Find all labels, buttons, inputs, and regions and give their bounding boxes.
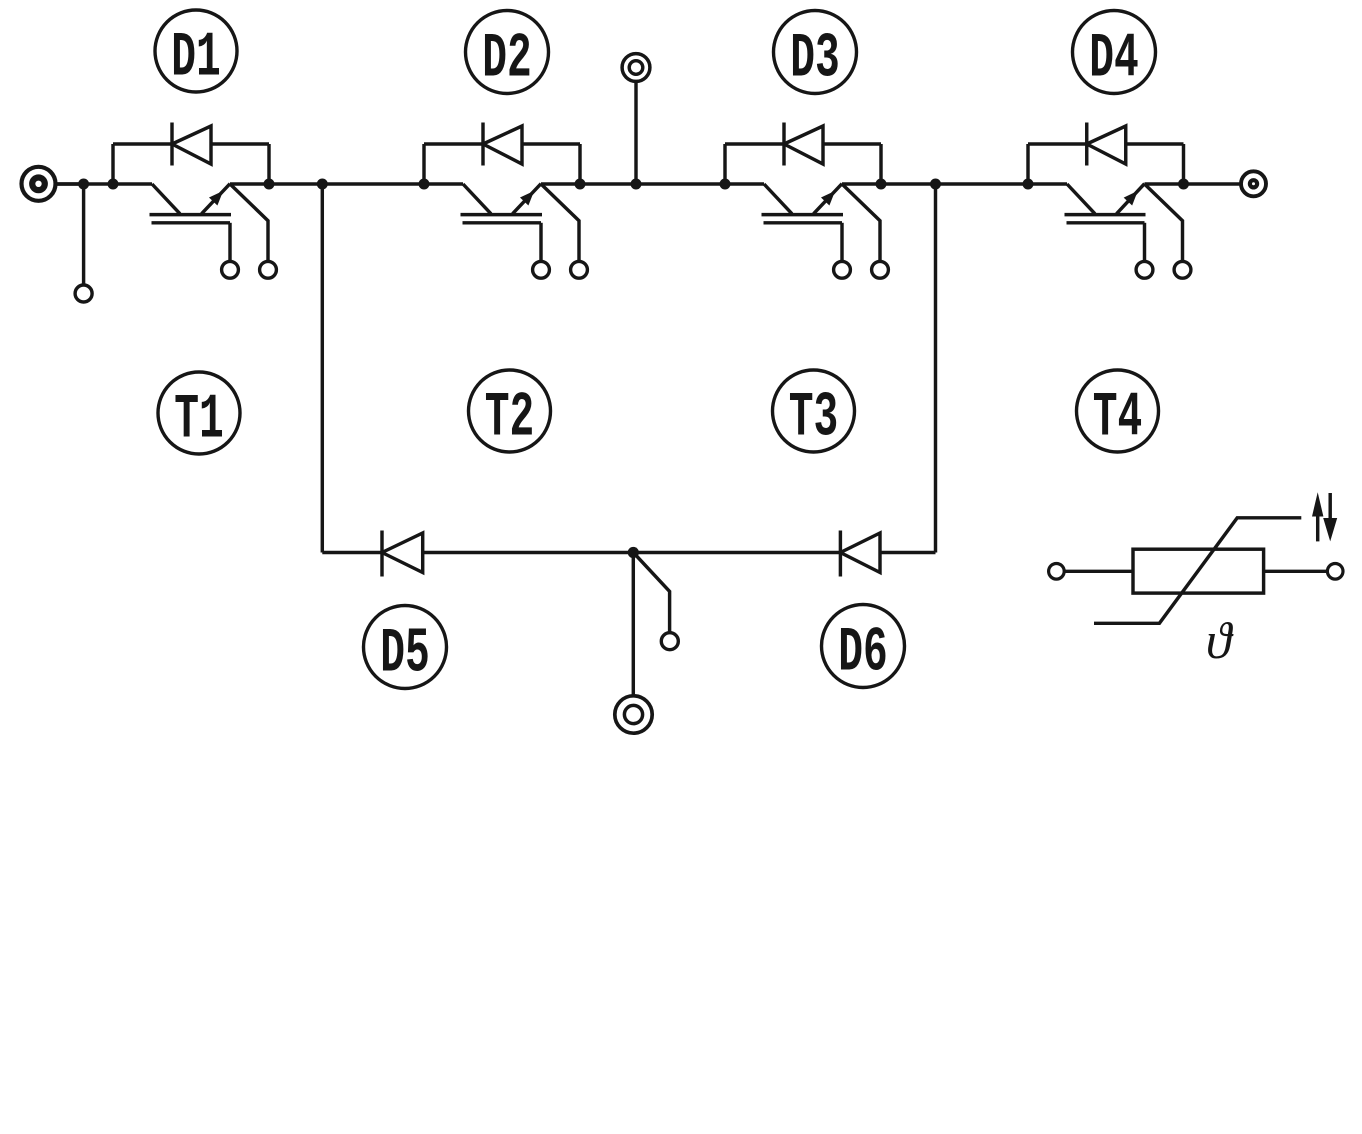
- svg-text:D1: D1: [171, 22, 221, 93]
- svg-text:D3: D3: [790, 23, 840, 94]
- svg-text:D6: D6: [838, 617, 888, 688]
- svg-text:D2: D2: [482, 23, 532, 94]
- svg-text:T2: T2: [485, 382, 535, 453]
- svg-text:D5: D5: [380, 618, 430, 689]
- svg-text:T3: T3: [789, 382, 839, 453]
- svg-text:T1: T1: [174, 384, 224, 455]
- svg-text:D4: D4: [1089, 23, 1139, 94]
- svg-text:ϑ: ϑ: [1206, 613, 1234, 670]
- svg-text:T4: T4: [1093, 382, 1143, 453]
